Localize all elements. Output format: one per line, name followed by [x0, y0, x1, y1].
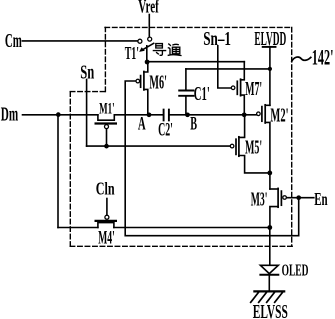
transistor M6 gate bar — [140, 76, 142, 88]
wire Sn stem — [86, 80, 88, 147]
label ~142' tilde — [292, 57, 311, 61]
transistor M3 top lead — [270, 188, 278, 190]
transistor M3 channel — [277, 188, 279, 207]
transistor M2 bottom lead — [265, 122, 270, 172]
transistor M5 gate circle — [230, 144, 234, 148]
diode OLED cathode bar — [260, 274, 278, 276]
transistor M6 channel — [143, 72, 145, 90]
node M1 gate junction — [104, 144, 109, 149]
transistor M4 gate circle — [105, 215, 109, 219]
switch T1 lever — [142, 43, 153, 50]
svg-text:M1': M1' — [99, 100, 115, 117]
wire row M1 to C2 — [114, 114, 163, 116]
transistor M5 top lead — [239, 115, 245, 138]
wire Cm to switch contact — [22, 40, 137, 42]
transistor M6 bottom lead to node A — [144, 89, 148, 114]
wire M3 gate to En — [287, 197, 314, 199]
svg-text:M6': M6' — [149, 73, 167, 94]
node OLED anode junction — [267, 225, 272, 230]
transistor M7 bottom lead — [241, 95, 245, 115]
svg-text:A: A — [138, 114, 146, 135]
transistor M4 channel tub — [98, 223, 114, 228]
capacitor C1 lower stem — [185, 97, 187, 115]
capacitor C1 top wire to rail — [186, 68, 270, 70]
transistor M2 top lead — [265, 104, 270, 106]
svg-text:ELVSS: ELVSS — [253, 301, 288, 319]
transistor M7 top lead — [241, 62, 245, 80]
node A — [147, 112, 152, 117]
wire OLED to ground — [268, 276, 270, 291]
wire Vref stem — [148, 15, 150, 37]
ground ELVSS bar — [254, 290, 284, 292]
svg-text:Cln: Cln — [96, 179, 115, 199]
wire ELVDD rail upper — [269, 47, 271, 105]
svg-text:C2': C2' — [158, 119, 173, 140]
node B — [185, 112, 190, 117]
wire M1 gate stem — [106, 129, 108, 146]
transistor M1 gate circle — [105, 125, 109, 129]
dashed box notch edge — [70, 91, 105, 93]
dashed box right edge — [291, 27, 293, 246]
svg-text:M4': M4' — [98, 227, 115, 248]
ground ELVSS hatches — [251, 292, 283, 302]
node M7 drain junction — [242, 112, 247, 117]
svg-text:M3': M3' — [251, 190, 268, 211]
dashed box upper-left edge — [104, 27, 106, 91]
transistor M1 gate bar — [96, 122, 116, 124]
transistor M2 gate circle — [257, 112, 261, 116]
wire Sn row to M5 gate — [87, 145, 230, 147]
transistor M6 gate circle — [136, 79, 140, 83]
capacitor C1 top plate — [179, 90, 193, 92]
transistor M6 top lead — [144, 62, 148, 72]
wire M4 row right to OLED node — [114, 227, 270, 229]
capacitor C2 left plate — [163, 110, 165, 121]
transistor M5 bottom lead — [239, 156, 270, 173]
svg-text:M7': M7' — [245, 78, 262, 100]
svg-text:Cm: Cm — [5, 31, 22, 52]
dashed box lower-left edge — [69, 92, 71, 247]
transistor M5 gate bar — [235, 139, 237, 154]
svg-text:En: En — [314, 189, 327, 209]
wire T1 junction to M7 source — [147, 61, 244, 63]
svg-text:Dm: Dm — [1, 104, 19, 126]
svg-text:B: B — [190, 114, 197, 135]
switch T1 left contact — [138, 39, 142, 43]
transistor M7 channel — [240, 79, 242, 96]
transistor M1 channel tub — [98, 115, 114, 120]
wire left tail down — [57, 115, 59, 228]
wire Dm row to M1 — [23, 114, 98, 116]
power ELVDD bar — [263, 46, 276, 48]
node En junction — [296, 195, 301, 200]
wire Sn-1 stem — [218, 46, 231, 88]
annotation dao (conducting) glyph 1 — [153, 44, 165, 56]
wire M4 row left — [58, 227, 98, 229]
transistor M7 gate circle — [231, 86, 235, 90]
transistor M3 gate bar — [280, 191, 282, 205]
dashed box 142' top edge — [105, 26, 292, 28]
svg-text:M5': M5' — [245, 136, 262, 158]
capacitor C1 upper stem — [185, 69, 187, 90]
svg-text:C1': C1' — [194, 83, 210, 105]
node M5 drain to rail junction — [267, 171, 272, 176]
svg-text:142': 142' — [312, 44, 334, 69]
wire rail to OLED — [269, 228, 271, 266]
node Dm branch junction — [56, 112, 61, 117]
wire Cln stem — [106, 199, 108, 216]
svg-text:OLED: OLED — [282, 261, 309, 280]
wire T1 pole — [146, 46, 148, 62]
diode OLED triangle — [260, 265, 278, 273]
switch T1 right contact — [148, 37, 152, 41]
wire M6 gate to En loop — [125, 81, 299, 236]
transistor M3 bottom lead — [270, 207, 278, 228]
transistor M2 gate bar — [261, 107, 263, 122]
annotation tong (conducting) glyph 2 — [168, 44, 181, 56]
wire row C2 to M2 gate — [169, 114, 256, 116]
transistor M5 channel — [238, 137, 240, 156]
transistor M7 gate bar — [236, 81, 238, 94]
wire rail M2 to M3 — [269, 173, 271, 189]
transistor M2 channel — [264, 105, 266, 123]
svg-text:T1': T1' — [125, 43, 139, 63]
svg-text:M2': M2' — [270, 105, 288, 127]
dashed box bottom edge — [70, 245, 292, 247]
transistor M3 gate circle — [283, 196, 287, 200]
node C1 to rail junction — [268, 67, 272, 71]
transistor M4 gate bar — [96, 220, 116, 222]
capacitor C2 right plate — [168, 110, 170, 121]
switch T1 lever arrowhead — [139, 47, 145, 52]
capacitor C1 bottom plate — [179, 95, 193, 97]
node T1 junction — [145, 60, 150, 65]
